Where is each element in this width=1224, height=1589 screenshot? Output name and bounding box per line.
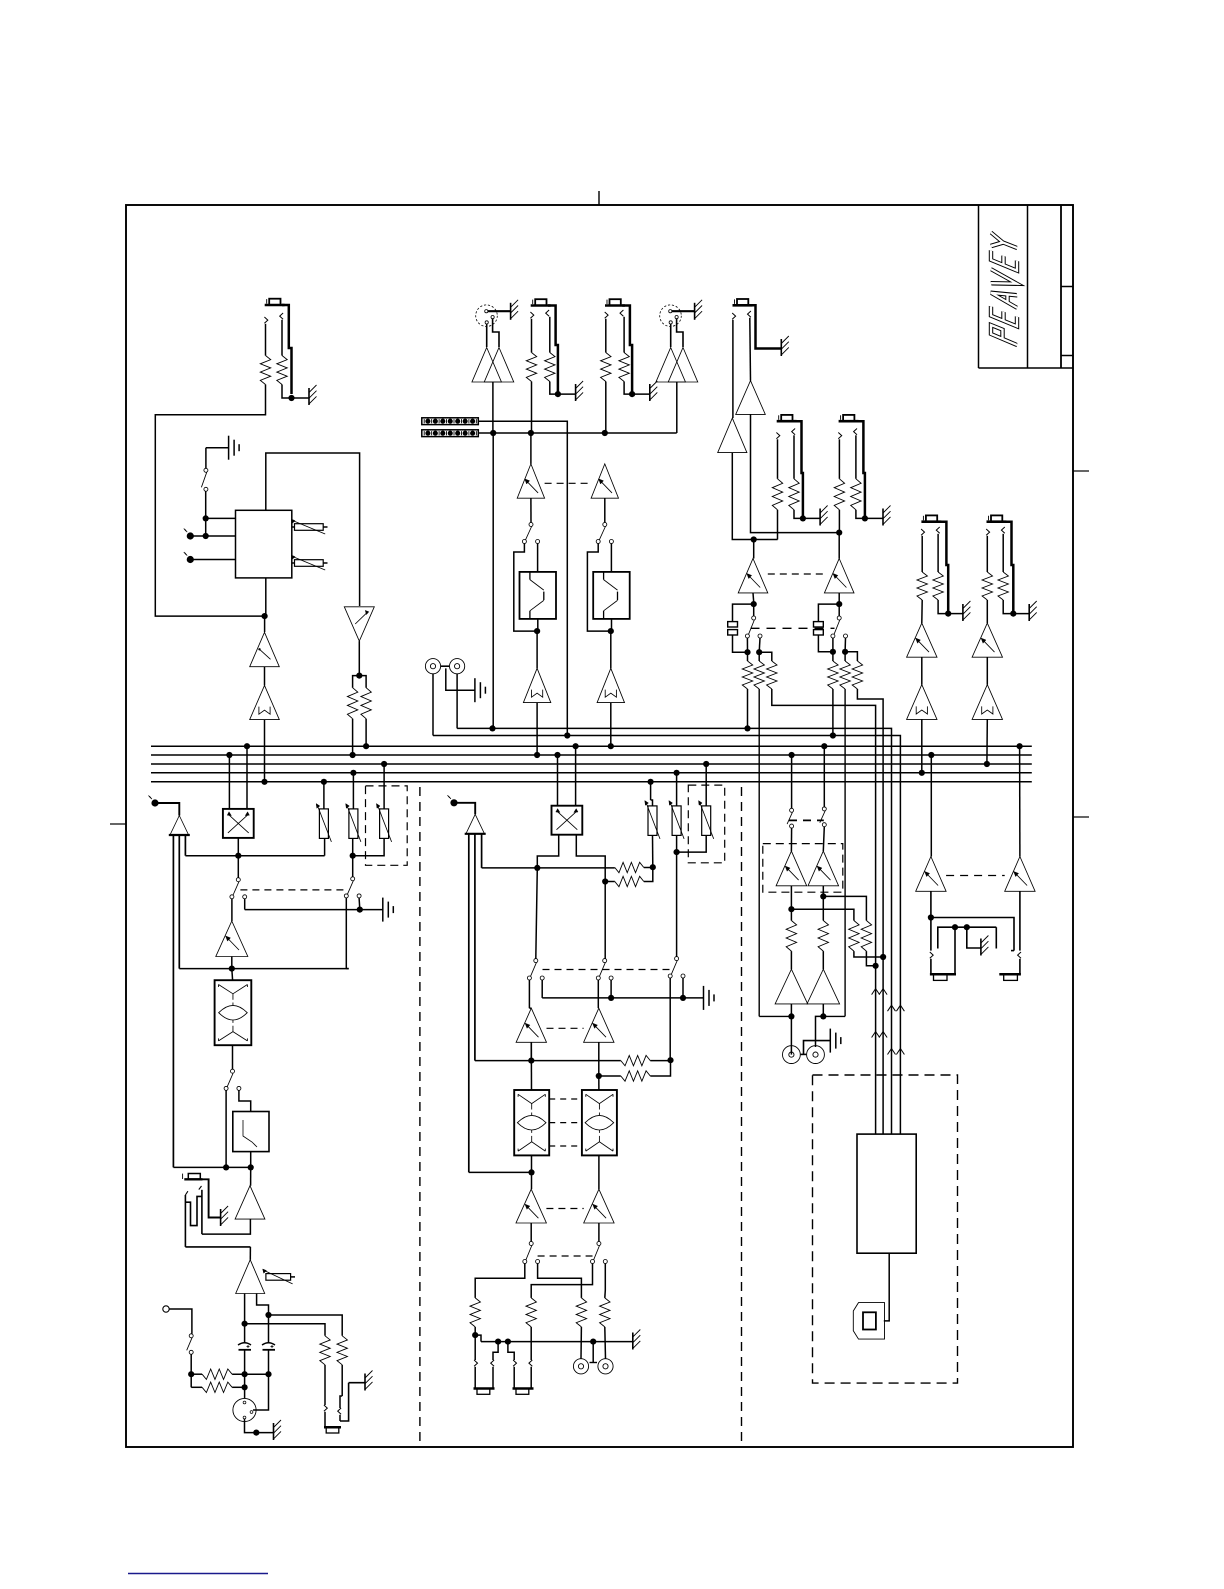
junction aux out	[350, 853, 356, 859]
record level VR14	[808, 851, 839, 886]
wire to R9	[245, 1324, 325, 1336]
wire J22 ring notch	[1011, 950, 1014, 952]
wire J15 gnd lead	[803, 517, 820, 519]
wire line1 to pan	[246, 746, 248, 809]
gang dashed S4 S5	[240, 889, 347, 891]
wire R6 to gnd	[550, 382, 558, 395]
wire to A8	[536, 631, 538, 668]
wire A9 to line1	[610, 703, 612, 747]
PEAVEY logo	[991, 233, 1017, 346]
wire R8 to gnd	[624, 382, 632, 395]
junction fx-r sum	[830, 649, 836, 655]
wire J14 sleeve	[750, 305, 781, 348]
resistor R tip 17	[917, 572, 927, 600]
eq return amp A21	[907, 623, 937, 657]
gang dashed VR11 VR12	[768, 573, 825, 575]
junction fx-l sum b	[756, 649, 762, 655]
resistor R25	[742, 661, 752, 689]
earth ground G2	[228, 436, 230, 460]
wire to amp A1	[264, 616, 266, 632]
summing amp A14	[466, 814, 485, 834]
chassis ground G9	[273, 1423, 275, 1440]
junction S7 node	[188, 1371, 194, 1377]
gang dashed VR15 VR16	[946, 875, 1005, 877]
op-amp A5 diff input R	[656, 348, 686, 383]
wire S16 to VR14	[823, 827, 824, 851]
capacitor C4 boxes	[814, 622, 824, 627]
wire S8 right to gnd	[541, 980, 543, 998]
wire to A9	[610, 631, 612, 668]
wire S1 to pins	[205, 491, 207, 536]
junction gnd mid	[964, 924, 970, 930]
junction line3 eqout-r	[984, 761, 990, 767]
wire J8 normal contacts	[185, 1196, 202, 1225]
wire J17 ring prong	[936, 527, 939, 533]
junction phones L	[928, 914, 934, 920]
wire R26 down rail	[758, 689, 760, 1016]
wire P5 to A14	[454, 803, 475, 815]
switch S2 eq bypass L	[529, 523, 533, 527]
wire J4 sleeve	[622, 306, 632, 395]
phones level VR15	[916, 857, 946, 892]
wire R27 to bundle	[772, 689, 876, 1134]
wire phones to J22	[931, 918, 1014, 951]
wire R5 to lineB	[531, 382, 533, 434]
wire A14 leg1	[468, 834, 470, 1173]
fader amp A6 left	[517, 464, 544, 498]
wire S5 right throw	[358, 898, 361, 910]
wire R22 to gnd	[794, 510, 803, 519]
wire ring L down	[954, 927, 956, 974]
fx amp A20	[718, 418, 747, 453]
wire U3 out	[531, 1155, 533, 1189]
wire R29 down rail	[844, 689, 846, 1016]
master fader A16	[584, 1008, 614, 1042]
junction A11 out	[229, 966, 235, 972]
wire split right	[359, 676, 366, 688]
junction fx-r out	[836, 601, 842, 607]
wire line5 to VR3	[323, 782, 325, 809]
wire J8 ring prong	[199, 1186, 202, 1190]
op-amp A4 diff input L	[472, 348, 502, 383]
RCA jack J12 rec out L	[573, 1359, 588, 1374]
wire S12 right throw to R20	[604, 1264, 606, 1291]
wire J8 sleeve	[203, 1179, 221, 1217]
wire A26 out	[822, 1004, 824, 1017]
junction X1 out	[235, 853, 241, 859]
chassis ground G1	[308, 388, 310, 405]
trimmer VR6	[266, 1274, 291, 1281]
wire C4 down	[818, 635, 833, 652]
wire S7 down	[190, 1354, 192, 1387]
junction line4 master aux2	[674, 770, 680, 776]
RCA jack J6 tape in L	[425, 659, 440, 674]
aux pot VR8	[648, 806, 657, 836]
op-amp A8 limiter L	[523, 668, 550, 702]
chassis ground G14	[882, 509, 884, 526]
junction VR14 node	[820, 893, 826, 899]
wire post eq rail	[173, 1166, 250, 1168]
jack J21 speaker L	[930, 952, 933, 958]
resistor R9	[320, 1336, 330, 1365]
wire eq-r out	[611, 619, 613, 631]
chassis ground G16	[980, 939, 982, 956]
resistor R10	[337, 1336, 347, 1365]
wire A14 leg2	[474, 834, 476, 1061]
wire S11 left throw to R17	[475, 1264, 525, 1298]
resistor R1	[260, 356, 270, 385]
switch S13 fx on L	[752, 616, 756, 620]
fold tick right edge upper	[1073, 470, 1089, 472]
section divider dashed left	[419, 787, 421, 1447]
junction potA bottom	[650, 864, 656, 870]
resistor R27	[767, 661, 777, 689]
aux pot VR3	[319, 809, 328, 839]
wire J4 gnd lead	[632, 393, 650, 395]
wire line2 to S15	[791, 755, 793, 808]
junction line3 master aux3	[703, 761, 709, 767]
wire S13 left throw	[746, 638, 748, 652]
junction rail J10 sleeve	[495, 1339, 501, 1345]
resistor R17	[470, 1298, 480, 1327]
aux pot VR5	[380, 809, 389, 839]
dashed option box VR5	[366, 786, 408, 865]
junction line2 tape-l	[789, 752, 795, 758]
junction R2 sleeve gnd	[288, 395, 294, 401]
junction lineA input amp	[489, 725, 495, 731]
wire J3 ring prong	[546, 310, 549, 316]
switch S3 eq bypass R	[603, 523, 607, 527]
wire pot bottom to gnd	[245, 1419, 274, 1433]
wire A3 out	[358, 641, 360, 676]
resistor R13 horiz	[615, 862, 644, 872]
mix bus line 2	[151, 754, 1032, 756]
wire S14 right throw	[844, 638, 846, 652]
wire master rail2	[482, 867, 615, 869]
chassis ground G7	[220, 1209, 222, 1226]
wire rca sleeve gnd	[446, 668, 475, 690]
earth ground G15	[829, 1029, 831, 1053]
resistor R31	[786, 921, 796, 952]
footswitch logic box U1	[236, 510, 292, 578]
op-amp A12 recovery	[235, 1186, 265, 1219]
op-amp A9 limiter R	[597, 668, 624, 702]
wire R31 to A25	[790, 951, 792, 969]
junction bundle2	[880, 954, 886, 960]
wire VR8 bottom	[652, 835, 654, 867]
soft clip A22	[907, 685, 937, 720]
wire U2 out	[232, 1046, 234, 1070]
power amp A25	[775, 969, 808, 1004]
wire S6 right throw	[239, 1090, 251, 1111]
junction rail J11 sleeve	[505, 1339, 511, 1345]
switch S10 aux master	[675, 957, 679, 961]
wire J9 sleeve to gnd	[340, 1383, 349, 1421]
wire U5 out	[884, 1253, 889, 1321]
junction R7 lineB	[602, 430, 608, 436]
op-amp A3 gain trim	[344, 607, 374, 641]
wire J4 ring prong	[620, 310, 623, 316]
wire J16 ring prong	[854, 429, 857, 435]
connector pin P5	[450, 799, 457, 806]
wire lineA from CN1	[478, 421, 567, 735]
resistor R33	[849, 921, 859, 952]
junction line1 master-r pin	[573, 743, 579, 749]
gang dashed S11 S12	[538, 1255, 593, 1257]
jack J11 line out R	[513, 1360, 516, 1366]
ribbon connector CN1	[422, 418, 479, 425]
junction line3 aux3 pot	[381, 761, 387, 767]
jack J1 footswitch	[265, 304, 285, 307]
pan crossfade X1	[223, 809, 254, 838]
junction R5 lineB	[528, 430, 534, 436]
USB connector J23	[853, 1303, 884, 1340]
junction ring L	[952, 924, 958, 930]
connector pin P3	[151, 799, 158, 806]
earth ground G5	[474, 678, 476, 702]
junction line5 master aux1	[648, 779, 654, 785]
wire J1 tip prong	[264, 317, 267, 323]
wire gnd lead 17	[948, 613, 963, 615]
fold tick right edge lower	[1073, 816, 1089, 818]
wire A10 leg3	[184, 835, 186, 856]
wire A25 out	[790, 1004, 792, 1055]
junction line1 gain-r	[363, 743, 369, 749]
bundle chevron 1b	[879, 989, 887, 995]
junction bundle1	[873, 963, 879, 969]
wire U1 top loop	[266, 453, 360, 606]
section divider dashed right	[741, 787, 743, 1447]
wire S12 left throw to R18	[531, 1264, 592, 1298]
junction eq-r out	[608, 628, 614, 634]
record amp A18	[584, 1189, 614, 1223]
resistor R ring 18	[998, 572, 1008, 600]
wire J4 tip prong	[605, 312, 608, 318]
wire A4 to lineA node	[492, 433, 494, 728]
aux pot VR9	[672, 806, 681, 836]
mix bus line 4	[151, 772, 1032, 774]
resistor R11 horiz	[202, 1369, 232, 1379]
bundle chevron 3b	[879, 1032, 887, 1038]
wire elbow to R27	[759, 652, 772, 661]
wire R2 to ground	[282, 385, 292, 399]
switch S15 record L	[790, 808, 794, 812]
junction lower res	[602, 878, 608, 884]
junction gnd rail	[357, 907, 363, 913]
aux line B	[433, 736, 900, 1135]
junction A4 lineB	[490, 430, 496, 436]
wire C2 to pot wiper	[253, 1374, 269, 1410]
compander U3	[514, 1090, 549, 1155]
wire line1 to S16	[823, 746, 825, 807]
pot VR7 master volume	[233, 1398, 256, 1421]
jack J14 fx return	[733, 304, 753, 307]
wire A21 to A22	[921, 657, 923, 684]
wire node to R33	[791, 909, 854, 920]
wire line1 to VR16	[1019, 746, 1021, 856]
junction aux master	[674, 849, 680, 855]
connector pin P1	[187, 532, 194, 539]
wire VR13 out	[790, 886, 792, 921]
wire R33 to bundle2	[854, 951, 883, 957]
wire rail L to out	[759, 1015, 791, 1017]
wire S9 left to A16	[597, 980, 599, 1008]
junction fl3 out	[248, 1164, 254, 1170]
wire J6 J7 link	[441, 665, 450, 667]
junction J16 gnd	[862, 515, 868, 521]
resistor R24	[851, 479, 861, 510]
resistor R4	[361, 688, 371, 719]
junction fx-r sum b	[842, 649, 848, 655]
wire J15 tip prong	[776, 433, 779, 439]
resistor R20	[600, 1298, 610, 1327]
wire line4 to VR4	[352, 773, 354, 809]
wire X2 out right	[576, 835, 605, 868]
wire mix rail	[185, 1246, 250, 1248]
wire R28 to lineB	[832, 689, 834, 736]
wire S5 left throw down	[345, 898, 347, 969]
wire J15 sleeve	[794, 421, 803, 518]
soft clip A24	[972, 685, 1002, 720]
wire line4 to VR9	[676, 773, 678, 806]
wire ring res to gnd	[1003, 600, 1013, 614]
wire VR14 out	[822, 886, 824, 921]
wire A17 out	[530, 1223, 532, 1242]
wire to cap C4	[818, 604, 839, 622]
wire S8 left to A15	[528, 980, 530, 1008]
wire VR12 out	[838, 593, 840, 602]
wire A12 out to ring	[202, 1219, 251, 1234]
wire J14 tip prong	[732, 313, 735, 319]
wire R20 to J13	[604, 1327, 607, 1359]
wire J14 ring prong	[748, 311, 751, 317]
wire to S13	[753, 604, 755, 616]
resistor R21	[772, 479, 782, 510]
wire lineB to A6	[530, 433, 532, 464]
junction lineB fx-r mix	[830, 732, 836, 738]
wire U4 out	[598, 1155, 600, 1189]
wire J17 sleeve	[939, 522, 949, 614]
aux line A	[457, 728, 891, 1134]
wire J16 gnd lead	[865, 517, 883, 519]
graphic EQ L FL1	[520, 572, 557, 619]
junction rail rca	[590, 1339, 596, 1345]
wire R19 to J12	[580, 1327, 582, 1359]
wire A13 out left	[244, 1294, 246, 1339]
wire J16 tip prong	[838, 433, 841, 439]
wire A15 down to comp	[530, 1042, 532, 1090]
junction J18 gnd	[1010, 611, 1016, 617]
wire gnd lead 18	[1013, 613, 1029, 615]
wire J3 sleeve	[548, 306, 558, 395]
fader amp A7 right	[591, 464, 618, 498]
resistor R26	[754, 661, 764, 689]
wire to compander	[231, 969, 234, 981]
wire S3 bypass	[587, 543, 610, 631]
page frame	[126, 205, 1073, 1447]
junction mix node	[667, 1057, 673, 1063]
wire to S14	[838, 604, 840, 616]
wire S4 left throw to A11	[231, 899, 233, 921]
junction line1 ch-right	[244, 743, 250, 749]
wire S4 common	[237, 856, 239, 878]
wire A19 out rail	[751, 414, 840, 532]
resistor R5	[526, 353, 536, 382]
eq return amp A23	[972, 623, 1002, 657]
gang dashed A6 A7	[545, 482, 592, 484]
wire fx-l level in	[753, 540, 755, 559]
junction VR13 node	[788, 906, 794, 912]
chassis ground G4	[649, 384, 651, 401]
wire rail2 to S8	[536, 868, 538, 959]
wire to S5	[352, 856, 354, 877]
wire J10 sleeve	[493, 1342, 498, 1360]
wire J6 to aux lineB	[432, 674, 434, 736]
wire S2 to eq	[537, 543, 539, 572]
junction U3 out	[528, 1169, 534, 1175]
compander U2	[215, 980, 252, 1045]
wire line1 to X2	[575, 746, 577, 806]
wire R3 to line2	[352, 719, 354, 755]
resistor R34	[861, 921, 871, 952]
wire master gnd rail	[542, 997, 703, 999]
master volume amp A13	[236, 1260, 265, 1294]
title block	[978, 205, 980, 368]
junction J15 gnd	[800, 515, 806, 521]
jack J15 preamp out	[777, 420, 797, 423]
jack J4 line in R	[605, 304, 625, 307]
op-amp A2 soft clip	[250, 685, 280, 719]
junction gnd rail 2	[608, 995, 614, 1001]
wire A24 to line3	[986, 719, 988, 764]
wire R12 to pot	[232, 1386, 245, 1388]
wire R13 to potA	[644, 867, 653, 869]
wire R15 to node	[650, 1060, 670, 1062]
junction pot gnd	[253, 1430, 259, 1436]
resistor R8	[619, 353, 629, 382]
resistor R6	[545, 353, 555, 382]
junction line2 ch-left	[226, 752, 232, 758]
wire R4 to line1	[365, 719, 367, 747]
wire J1 ring prong	[280, 313, 283, 319]
wire J18 sleeve	[1004, 522, 1014, 614]
jack J3 line in L	[531, 304, 551, 307]
resistor R19	[576, 1298, 586, 1327]
wire R16 to node	[650, 1060, 670, 1076]
wire A2 out to bus line5	[264, 720, 266, 782]
wire line3 to VR5	[383, 764, 385, 809]
wire master rail	[185, 855, 324, 857]
wire A10 leg1	[172, 835, 174, 1167]
wire line2 to pan	[228, 755, 230, 809]
junction A20 to fx-l	[751, 536, 757, 542]
wire S2 bypass	[514, 543, 537, 631]
junction fx-l out	[751, 601, 757, 607]
bundle chevron 3a	[872, 1032, 880, 1038]
wire eq out	[537, 619, 539, 631]
wire lineB	[478, 432, 676, 434]
aux pot VR10	[702, 806, 711, 836]
wire rail R to out	[823, 1015, 845, 1017]
wire S14 left throw	[832, 638, 834, 652]
switch S5 aux pre post	[351, 877, 355, 881]
XLR connector J5 mic R	[660, 305, 682, 327]
summing amp A10	[170, 816, 189, 836]
wire S4 right throw to gnd rail	[244, 899, 246, 910]
op-amp A1 channel preamp	[250, 632, 280, 666]
wire J18 tip prong	[986, 529, 989, 535]
wire A8 to line2	[536, 703, 538, 755]
